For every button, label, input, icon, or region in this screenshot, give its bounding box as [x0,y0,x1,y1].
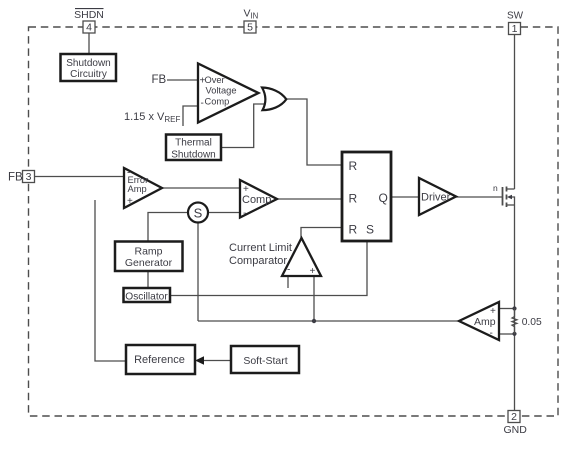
svg-text:Ramp: Ramp [134,246,162,258]
svg-text:Shutdown: Shutdown [171,150,215,161]
svg-text:Circuitry: Circuitry [70,69,107,80]
svg-text:+: + [127,196,133,207]
svg-text:-: - [490,328,493,339]
svg-text:R: R [349,159,358,173]
svg-text:R: R [349,223,358,237]
svg-text:S: S [194,206,203,221]
svg-text:2: 2 [511,411,517,423]
svg-text:Thermal: Thermal [175,138,212,149]
svg-text:Q: Q [379,191,388,205]
svg-text:Shutdown: Shutdown [66,58,110,69]
svg-text:+: + [310,266,316,277]
svg-text:R: R [349,192,358,206]
svg-text:Current Limit: Current Limit [229,242,292,254]
svg-text:5: 5 [247,22,253,34]
svg-text:Amp: Amp [128,184,147,194]
svg-text:-: - [243,208,246,219]
svg-text:Over: Over [205,75,225,85]
svg-text:Comp: Comp [242,194,271,206]
svg-text:Amp: Amp [474,316,496,328]
svg-text:VIN: VIN [244,8,259,21]
svg-text:FB: FB [8,172,23,184]
svg-text:n: n [493,183,498,193]
svg-text:S: S [366,223,374,237]
svg-text:Oscillator: Oscillator [125,292,168,303]
svg-text:SHDN: SHDN [74,9,104,21]
svg-text:Comparator: Comparator [229,255,287,267]
svg-text:Driver: Driver [421,192,451,204]
svg-text:Comp: Comp [205,97,230,107]
svg-text:-: - [287,265,290,276]
svg-text:4: 4 [86,22,92,34]
svg-text:FB: FB [152,74,167,86]
svg-text:GND: GND [504,424,528,436]
svg-text:Generator: Generator [125,257,173,269]
svg-text:SW: SW [507,11,524,22]
svg-text:Soft-Start: Soft-Start [243,355,287,367]
svg-text:0.05: 0.05 [522,317,542,328]
svg-text:3: 3 [26,171,32,183]
svg-text:1: 1 [512,23,518,35]
svg-text:Reference: Reference [134,354,185,366]
svg-text:-: - [201,98,204,109]
svg-text:1.15 x VREF: 1.15 x VREF [124,111,180,124]
svg-text:Voltage: Voltage [206,86,237,96]
